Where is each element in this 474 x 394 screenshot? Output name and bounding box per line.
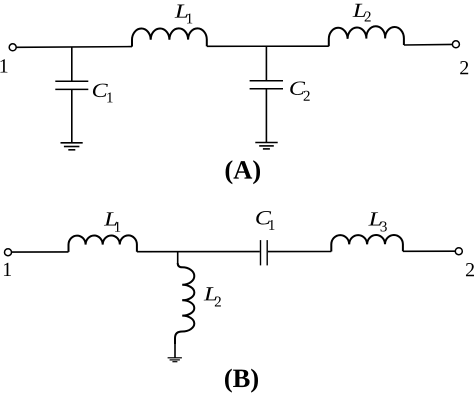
caption (B) bbox=[225, 369, 258, 393]
value label L2 subscript (circuit B) bbox=[215, 297, 221, 307]
value label L1 (circuit B) bbox=[104, 212, 117, 225]
port 2 label "2" (circuit B) bbox=[466, 263, 474, 276]
node: C2 junction stub (circuit A) bbox=[265, 46, 267, 81]
inductor L3 (circuit B, series) bbox=[331, 235, 403, 252]
wire: C2 bottom plate to ground (circuit A) bbox=[265, 89, 267, 143]
inductor L2 (circuit A, series) bbox=[329, 26, 404, 46]
value label L1 subscript (circuit B) bbox=[115, 222, 120, 232]
port 1 label "1" (circuit A) bbox=[0, 59, 7, 72]
value label C2 (circuit A) bbox=[290, 82, 305, 95]
wire: L3 to port 2 (circuit B) bbox=[403, 250, 456, 252]
wire: L1 to inductor L2 through node of C2 (circuit A) bbox=[207, 45, 329, 47]
inductor L1 (circuit A, series) bbox=[132, 28, 207, 46]
port 1 (circuit A) bbox=[9, 44, 16, 51]
port 1 (circuit B) bbox=[5, 249, 12, 256]
port 2 (circuit A) bbox=[452, 41, 459, 48]
value label L1 (circuit A) bbox=[175, 5, 188, 18]
value label L3 (circuit B) bbox=[368, 212, 381, 225]
port 1 label "1" (circuit B) bbox=[4, 263, 11, 276]
wire: C1 bottom plate to ground (circuit A) bbox=[71, 89, 73, 142]
value label L3 subscript (circuit B) bbox=[381, 221, 387, 231]
value label C1 (circuit B) bbox=[256, 211, 271, 224]
port 2 label "2" (circuit A) bbox=[460, 61, 468, 74]
wire: port 1 to inductor L1 through node of C1 (circuit A) bbox=[16, 46, 132, 49]
inductor L2 (circuit B, shunt to ground) bbox=[175, 263, 194, 344]
capacitor C1 (circuit B, series) bbox=[261, 240, 268, 265]
value label C1 (circuit A) bbox=[93, 84, 108, 97]
value label C2 subscript (circuit A) bbox=[304, 91, 310, 101]
capacitor C2 (circuit A, shunt) bbox=[250, 81, 283, 89]
value label C1 subscript (circuit B) bbox=[269, 220, 274, 230]
inductor L1 (circuit B, series) bbox=[68, 235, 136, 251]
port 2 (circuit B) bbox=[455, 248, 462, 255]
wire: L2 to ground (circuit B) bbox=[174, 344, 176, 358]
value label L2 subscript (circuit A) bbox=[365, 12, 371, 22]
wire: L1 to capacitor C1 through node of L2 (circuit B) bbox=[137, 251, 260, 253]
wire: C1 to inductor L3 (circuit B) bbox=[268, 251, 331, 253]
capacitor C1 (circuit A, shunt) bbox=[55, 81, 88, 89]
caption (A) bbox=[226, 160, 260, 184]
value label L1 subscript (circuit A) bbox=[187, 13, 192, 23]
node: C1 junction stub (circuit A) bbox=[71, 47, 73, 81]
wire: L2 to port 2 (circuit A) bbox=[404, 43, 453, 46]
ground (below C1, circuit A) bbox=[61, 143, 83, 150]
ground (below C2, circuit A) bbox=[255, 143, 277, 149]
value label C1 subscript (circuit A) bbox=[107, 92, 112, 102]
value label L2 (circuit A) bbox=[353, 4, 366, 17]
value label L2 (circuit B) bbox=[204, 287, 217, 300]
wire: port 1 to inductor L1 (circuit B) bbox=[12, 251, 69, 253]
node: L2 junction stub (circuit B) bbox=[177, 252, 179, 264]
ground (below L2, circuit B) bbox=[168, 358, 182, 362]
